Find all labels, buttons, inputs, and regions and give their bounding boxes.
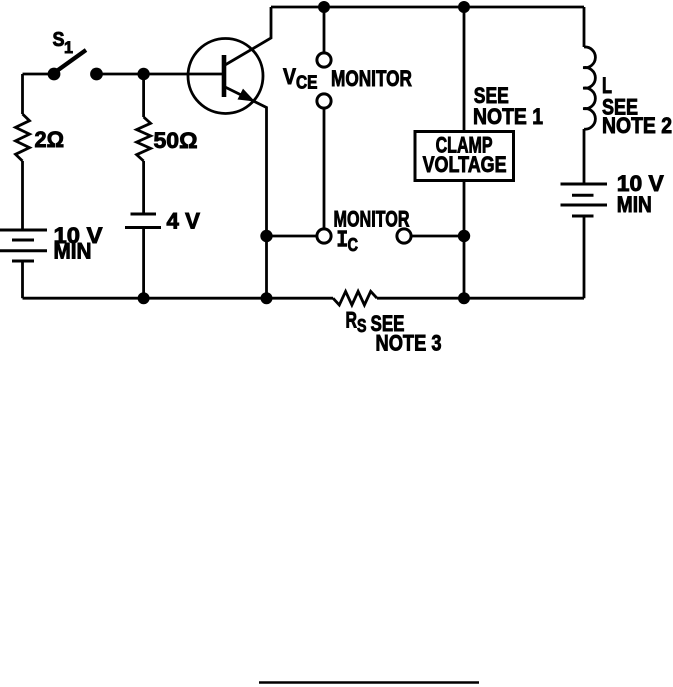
svg-text:V: V bbox=[283, 64, 296, 89]
svg-text:NOTE 2: NOTE 2 bbox=[602, 113, 672, 138]
wire: emitter continues down to ground rail bbox=[265, 236, 268, 298]
wire: battery V1 bottom lead to ground rail bbox=[21, 261, 24, 298]
svg-text:VOLTAGE: VOLTAGE bbox=[423, 152, 507, 177]
svg-text:C: C bbox=[348, 235, 359, 255]
wire: switch input from left rail bbox=[23, 73, 51, 76]
node: junction dot 50-ohm branch on ground rail bbox=[138, 292, 150, 304]
transistor Q1 emitter arrowhead bbox=[238, 89, 256, 102]
node: junction dot clamp branch on ground rail bbox=[458, 292, 470, 304]
svg-text:CE: CE bbox=[296, 73, 318, 93]
svg-text:4 V: 4 V bbox=[167, 209, 201, 234]
wire: left rail upper segment bbox=[21, 74, 24, 114]
battery V1 (10 V MIN, left) bbox=[0, 230, 47, 261]
wire: VCE monitor upper lead bbox=[323, 7, 326, 53]
node: dot top rail at clamp branch bbox=[458, 1, 470, 13]
svg-text:50Ω: 50Ω bbox=[154, 128, 198, 153]
node: switch pole dot bbox=[48, 68, 61, 81]
wire: right branch from top rail down to inductor bbox=[583, 7, 586, 47]
transistor Q1 collector lead bbox=[225, 7, 271, 65]
terminal: IC monitor circle left bbox=[317, 229, 331, 243]
svg-text:S: S bbox=[53, 29, 65, 51]
node: junction dot at 50-ohm branch bbox=[137, 68, 149, 80]
terminal: VCE monitor lower circle bbox=[317, 94, 331, 108]
node: junction dot emitter at monitor row bbox=[260, 230, 272, 242]
svg-text:MIN: MIN bbox=[617, 192, 652, 217]
svg-text:MONITOR: MONITOR bbox=[334, 207, 410, 232]
svg-text:NOTE 1: NOTE 1 bbox=[473, 104, 543, 129]
wire: IC monitor right circle to clamp branch bbox=[411, 235, 464, 238]
node: junction dot emitter on ground rail bbox=[261, 292, 273, 304]
node: dot collector to top rail at VCE tap bbox=[318, 1, 330, 13]
wire: VCE lower circle down to IC monitor circle bbox=[323, 108, 326, 229]
wire: ground rail right segment bbox=[377, 297, 584, 300]
wire: 50-ohm branch top lead bbox=[142, 74, 145, 117]
horizontal rule at page bottom bbox=[259, 681, 479, 684]
transistor Q1 circle bbox=[188, 39, 263, 114]
svg-text:MONITOR: MONITOR bbox=[331, 66, 412, 91]
svg-text:NOTE 3: NOTE 3 bbox=[376, 331, 442, 356]
wire: 2-ohm lead down to battery V1 bbox=[21, 161, 24, 230]
transistor Q1 emitter lead bbox=[225, 87, 267, 236]
wire: clamp box bottom to monitor row junction bbox=[463, 181, 466, 237]
node: junction dot clamp branch at monitor row bbox=[458, 230, 470, 242]
inductor L bbox=[583, 47, 595, 129]
switch S1 blade bbox=[56, 50, 86, 72]
resistor 2-ohm bbox=[16, 114, 30, 161]
wire: emitter junction to IC monitor circle bbox=[267, 235, 318, 238]
svg-text:1: 1 bbox=[64, 38, 73, 57]
node: switch throw dot bbox=[90, 68, 103, 81]
wire: ground rail left segment bbox=[23, 297, 334, 300]
svg-text:R: R bbox=[346, 308, 358, 333]
terminal: IC monitor circle right bbox=[397, 229, 411, 243]
svg-text:MIN: MIN bbox=[54, 239, 92, 264]
wire: inductor to battery V3 bbox=[583, 129, 586, 184]
label IC bbox=[338, 232, 348, 245]
resistor 50-ohm bbox=[137, 117, 151, 161]
svg-text:2Ω: 2Ω bbox=[35, 127, 65, 152]
wire: base wire from switch throw to transistor bbox=[97, 73, 223, 76]
svg-text:S: S bbox=[357, 316, 367, 336]
battery V2 (4 V) bbox=[125, 214, 161, 228]
wire: battery V2 bottom lead to ground rail bbox=[142, 228, 145, 299]
battery V3 (10 V MIN, right) bbox=[561, 184, 608, 216]
resistor RS bbox=[333, 291, 377, 305]
wire: 50-ohm lead down to battery V2 bbox=[142, 161, 145, 214]
wire: clamp branch down to ground rail bbox=[463, 236, 466, 298]
transistor Q1 base bar bbox=[222, 55, 227, 97]
wire: clamp branch from top rail to clamp box bbox=[463, 7, 466, 132]
terminal: VCE monitor upper circle bbox=[317, 53, 331, 67]
wire: battery V3 to ground rail right corner bbox=[583, 216, 586, 298]
wire: top rail from collector to right branch bbox=[271, 6, 584, 9]
clamp voltage box U1 bbox=[415, 132, 514, 181]
